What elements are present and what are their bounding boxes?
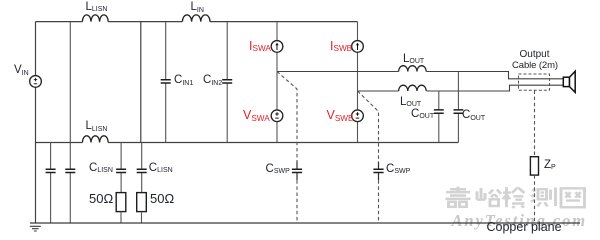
capacitor C_SWP (right) — [378, 162, 380, 181]
label C_IN1 — [174, 75, 193, 87]
capacitor at x=70 — [65, 169, 75, 172]
capacitor C_IN2 — [226, 22, 228, 143]
label L_LISN top — [86, 2, 108, 14]
current source I_SWA — [276, 22, 278, 72]
inductor L_OUT (bottom) — [399, 85, 427, 91]
wire: mid rail — [36, 142, 459, 144]
inductor L_OUT (top) — [399, 66, 427, 72]
label 50ohm left — [89, 192, 113, 205]
capacitor C_OUT (right) — [457, 72, 459, 143]
label V_SWB — [327, 109, 354, 122]
label C_OUT right — [462, 110, 485, 122]
ground — [30, 226, 41, 231]
label V_SWA — [243, 109, 270, 122]
capacitor C_SWP (left) — [296, 162, 298, 181]
capacitor C_IN1 — [165, 22, 167, 143]
wire A: switch node A to output — [277, 72, 563, 79]
dashed net: switch A parasitic to C_SWP — [277, 72, 297, 162]
wire: vertical x=140.5 (top to mid rail) — [140, 22, 142, 143]
inductor L_LISN (mid) — [82, 136, 108, 143]
impedance Z_P — [530, 157, 538, 175]
label L_IN — [191, 2, 204, 14]
label C_OUT left — [411, 109, 434, 121]
label copper plane — [487, 221, 562, 234]
label L_OUT bottom — [400, 97, 421, 109]
source V_IN — [30, 76, 42, 88]
voltage source V_SWB — [357, 91, 359, 143]
current source I_SWB — [357, 22, 359, 91]
label V_IN — [14, 65, 29, 77]
label I_SWB — [330, 40, 352, 53]
label C_SWP right — [386, 164, 410, 176]
wire: V_IN branch vertical x=35 — [35, 22, 37, 223]
label C_IN2 — [203, 75, 222, 87]
resistor 50ohm (left) — [116, 193, 126, 212]
label I_SWA — [249, 40, 271, 53]
inductor L_LISN (top) — [82, 15, 108, 22]
label C_LISN left — [89, 163, 113, 175]
speaker load — [563, 77, 569, 86]
label L_LISN mid — [86, 121, 108, 133]
inductor L_IN — [182, 15, 210, 22]
wire: top rail — [36, 21, 358, 23]
dashed net: cable to Z_P — [534, 91, 536, 157]
wire B: switch node B to output — [358, 85, 563, 91]
capacitor branch x=50.5 — [50, 143, 52, 224]
label C_SWP left — [266, 164, 290, 176]
capacitor C_LISN (left) — [120, 143, 122, 193]
copper plane rail — [30, 222, 580, 224]
label output cable — [520, 50, 550, 60]
output cable dashed box — [519, 74, 550, 90]
capacitor C_OUT (left) — [438, 91, 440, 143]
wire: vertical x=70 (top rail to bottom rail, cap gap) — [69, 22, 71, 223]
label Z_P — [544, 160, 556, 172]
label 50ohm right — [150, 192, 174, 205]
label C_LISN right — [149, 163, 173, 175]
capacitor C_LISN (right) — [141, 143, 143, 193]
label L_OUT top — [403, 54, 424, 66]
resistor 50ohm (right) — [137, 193, 147, 212]
voltage source V_SWA — [276, 72, 278, 143]
dashed net: switch B parasitic to C_SWP — [358, 91, 379, 162]
